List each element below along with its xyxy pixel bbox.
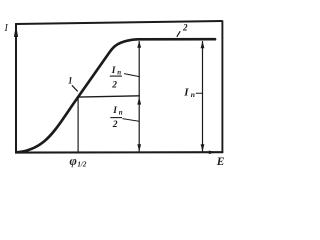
svg-text:E: E (216, 156, 225, 168)
svg-text:1/2: 1/2 (77, 161, 86, 169)
svg-text:n: n (119, 108, 123, 116)
svg-text:1: 1 (68, 75, 73, 85)
svg-text:I: I (111, 66, 116, 76)
svg-text:2: 2 (111, 80, 117, 90)
svg-text:n: n (117, 68, 121, 76)
svg-text:2: 2 (182, 23, 188, 33)
svg-text:n: n (191, 90, 195, 99)
svg-text:I: I (112, 106, 117, 116)
svg-text:I: I (4, 23, 9, 34)
svg-text:φ: φ (70, 154, 77, 168)
svg-text:I: I (183, 86, 189, 98)
svg-text:2: 2 (112, 120, 118, 130)
